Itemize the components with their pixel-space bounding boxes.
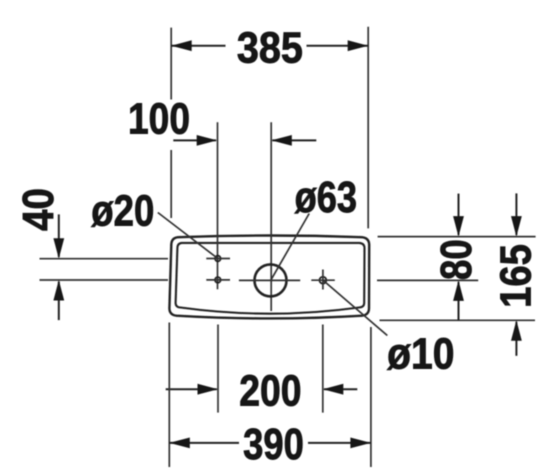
dim 40 upper arrow line (58, 214, 60, 257)
dim 385 line left segment (171, 45, 225, 47)
dim 390 line left segment (169, 442, 239, 444)
svg-text:385: 385 (237, 24, 303, 73)
dim 385 left extension line (upper segment) (170, 28, 172, 100)
hole O20 upper (215, 256, 221, 262)
svg-text:ø10: ø10 (387, 330, 454, 379)
hole O20 lower (215, 277, 221, 283)
leader line O63 (271, 214, 309, 281)
dim 390 right arrow (350, 438, 371, 449)
svg-text:390: 390 (243, 420, 304, 469)
svg-text:ø20: ø20 (91, 186, 154, 235)
hole O10 horizontal cross line (311, 279, 335, 281)
svg-text:165: 165 (492, 244, 541, 308)
hole O20 upper cross line (206, 258, 230, 260)
centerline through left holes (217, 122, 219, 289)
dim 40 upper extension line (40, 258, 169, 260)
dim 200 right extension line (322, 325, 324, 413)
right extension line tank top (378, 236, 536, 238)
cistern outer outline (169, 236, 369, 319)
hole O10 vertical cross line (322, 270, 324, 290)
hole O63 horizontal centerline (239, 279, 300, 281)
dim 165 upper arrow line (515, 193, 517, 235)
dim 385 left extension line (lower segment) (170, 150, 172, 218)
svg-text:200: 200 (239, 367, 301, 416)
dim 200 left arrow line (166, 388, 217, 390)
dim 40 lower arrow line (58, 282, 60, 321)
dim 100 line right segment with arrow (272, 139, 316, 141)
dim 385 line right segment (307, 45, 369, 47)
dim 80 upper arrow line (458, 194, 460, 235)
dim 390 right extension line (370, 327, 372, 467)
dim 100 line left segment with arrow (173, 139, 216, 141)
svg-text:80: 80 (432, 239, 481, 280)
dim 390 left arrow (169, 438, 190, 449)
dim 200 left extension line (217, 325, 219, 413)
hole O63 center (255, 264, 287, 296)
right extension line hole O10 height (377, 279, 478, 281)
leader line O20 (158, 213, 218, 259)
cistern lid inner outline (176, 243, 365, 314)
svg-text:40: 40 (14, 188, 63, 231)
hole O20 lower cross line (206, 279, 230, 281)
dim 385 right arrow (348, 40, 369, 51)
dim 385 left arrow (171, 40, 192, 51)
dim 165 lower arrow line (515, 322, 517, 356)
svg-text:ø63: ø63 (295, 173, 357, 222)
dim 390 left extension line (168, 323, 170, 468)
dim 200 right arrow line (324, 388, 357, 390)
leader line O10 (323, 280, 387, 335)
dim 40 lower extension line (40, 279, 169, 281)
main vertical centerline (270, 122, 272, 311)
right extension line tank bottom (380, 319, 536, 321)
dim 385 right extension line (367, 27, 369, 229)
dim 390 line right segment (308, 442, 371, 444)
hole O10 right (320, 277, 327, 284)
dim 80 lower arrow line (458, 282, 460, 320)
svg-text:100: 100 (128, 95, 190, 144)
